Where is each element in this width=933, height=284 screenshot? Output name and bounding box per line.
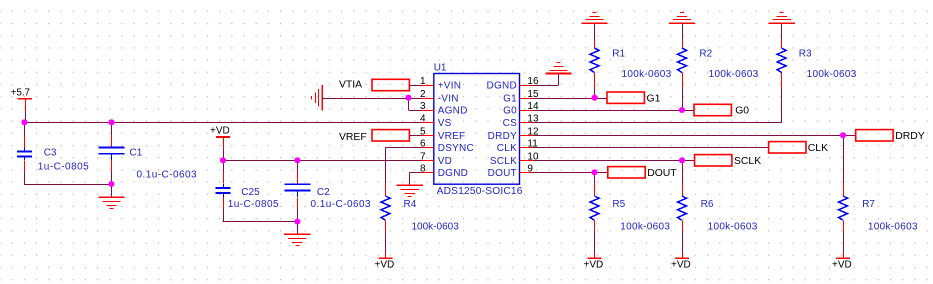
svg-text:C1: C1 bbox=[130, 148, 143, 159]
svg-text:DGND: DGND bbox=[438, 168, 468, 179]
svg-text:DOUT: DOUT bbox=[488, 168, 517, 179]
svg-text:100k-0603: 100k-0603 bbox=[622, 69, 672, 80]
svg-text:C3: C3 bbox=[44, 147, 57, 158]
svg-text:1u-C-0805: 1u-C-0805 bbox=[228, 199, 279, 210]
svg-text:100k-0603: 100k-0603 bbox=[412, 221, 460, 232]
svg-text:4: 4 bbox=[420, 114, 426, 125]
svg-text:DRDY: DRDY bbox=[488, 131, 517, 142]
svg-text:DRDY: DRDY bbox=[895, 131, 925, 142]
svg-text:VS: VS bbox=[438, 118, 452, 129]
svg-text:VREF: VREF bbox=[438, 131, 466, 142]
svg-text:9: 9 bbox=[527, 164, 533, 175]
svg-text:+VD: +VD bbox=[584, 260, 604, 271]
svg-text:C2: C2 bbox=[317, 187, 330, 198]
svg-text:U1: U1 bbox=[434, 62, 447, 73]
svg-text:+VD: +VD bbox=[375, 260, 395, 271]
svg-text:VREF: VREF bbox=[339, 132, 367, 143]
svg-text:CLK: CLK bbox=[497, 143, 517, 154]
svg-text:100k-0603: 100k-0603 bbox=[807, 69, 857, 80]
svg-text:0.1u-C-0603: 0.1u-C-0603 bbox=[311, 199, 372, 210]
svg-text:+5.7: +5.7 bbox=[11, 88, 30, 99]
svg-text:ADS1250-SOIC16: ADS1250-SOIC16 bbox=[437, 186, 523, 197]
svg-text:G1: G1 bbox=[647, 93, 661, 104]
svg-text:SCLK: SCLK bbox=[490, 156, 517, 167]
svg-text:1u-C-0805: 1u-C-0805 bbox=[38, 161, 89, 172]
svg-text:R3: R3 bbox=[799, 49, 812, 60]
svg-text:R4: R4 bbox=[404, 199, 417, 210]
svg-text:+VD: +VD bbox=[671, 260, 691, 271]
svg-text:G1: G1 bbox=[503, 93, 517, 104]
svg-text:+VD: +VD bbox=[832, 260, 852, 271]
svg-text:CS: CS bbox=[503, 118, 517, 129]
svg-text:AGND: AGND bbox=[438, 106, 468, 117]
svg-text:G0: G0 bbox=[735, 106, 749, 117]
svg-text:C25: C25 bbox=[241, 187, 260, 198]
svg-text:SCLK: SCLK bbox=[734, 156, 761, 167]
svg-text:R5: R5 bbox=[612, 199, 625, 210]
svg-text:1: 1 bbox=[420, 76, 426, 87]
svg-text:3: 3 bbox=[420, 101, 426, 112]
svg-text:DGND: DGND bbox=[487, 81, 517, 92]
svg-text:G0: G0 bbox=[503, 106, 517, 117]
svg-text:VD: VD bbox=[438, 156, 452, 167]
svg-text:R7: R7 bbox=[862, 199, 875, 210]
svg-text:R2: R2 bbox=[699, 49, 712, 60]
svg-text:+VD: +VD bbox=[210, 125, 230, 136]
svg-text:2: 2 bbox=[420, 89, 426, 100]
svg-text:+VIN: +VIN bbox=[438, 81, 462, 92]
svg-text:5: 5 bbox=[420, 127, 426, 138]
svg-text:CLK: CLK bbox=[808, 143, 828, 154]
svg-text:100k-0603: 100k-0603 bbox=[868, 221, 918, 232]
svg-text:6: 6 bbox=[420, 139, 426, 150]
svg-text:100k-0603: 100k-0603 bbox=[708, 221, 758, 232]
svg-text:100k-0603: 100k-0603 bbox=[709, 69, 759, 80]
svg-text:8: 8 bbox=[420, 164, 426, 175]
svg-text:DOUT: DOUT bbox=[647, 168, 677, 179]
svg-text:-VIN: -VIN bbox=[438, 93, 459, 104]
svg-text:DSYNC: DSYNC bbox=[438, 143, 474, 154]
svg-text:0.1u-C-0603: 0.1u-C-0603 bbox=[137, 169, 198, 180]
svg-text:R6: R6 bbox=[701, 199, 714, 210]
svg-text:100k-0603: 100k-0603 bbox=[620, 221, 670, 232]
svg-text:7: 7 bbox=[420, 152, 426, 163]
svg-text:R1: R1 bbox=[612, 49, 625, 60]
svg-text:VTIA: VTIA bbox=[339, 79, 362, 90]
